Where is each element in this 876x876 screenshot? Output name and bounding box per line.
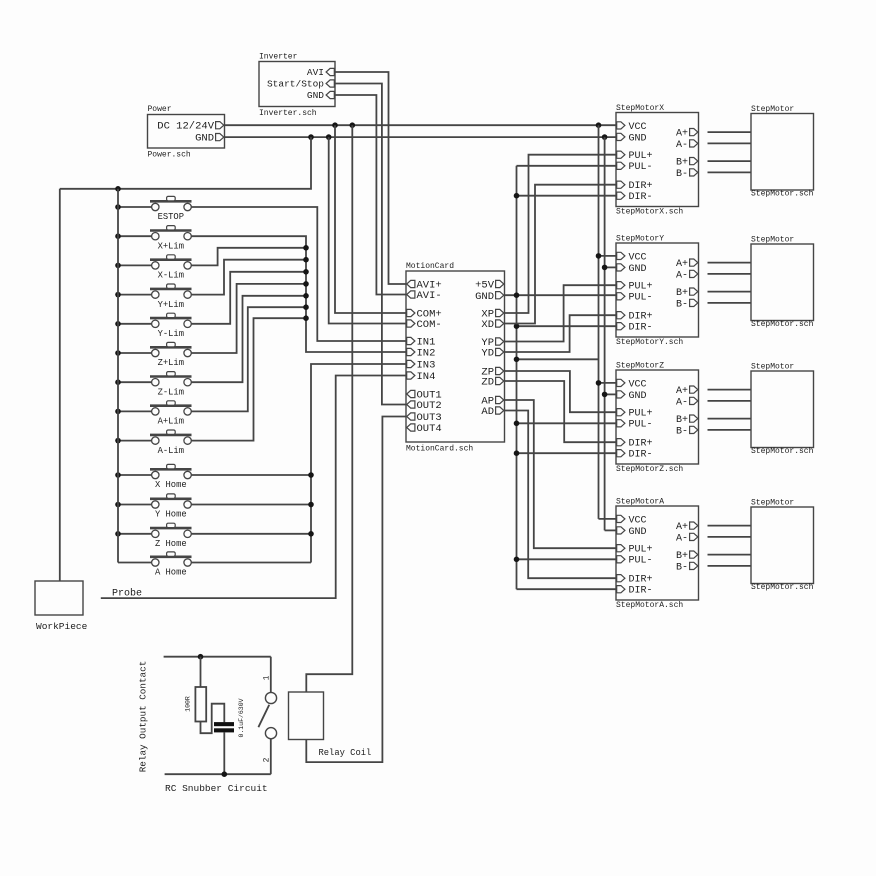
pin ZP of MotionCard: [496, 367, 504, 374]
svg-text:StepMotorY: StepMotorY: [616, 235, 664, 244]
wire bus to A Home left pin: [118, 562, 152, 564]
svg-text:DIR+: DIR+: [629, 181, 653, 192]
pin PUL- of StepMotorA: [617, 556, 625, 563]
wire bus to Y+Lim left pin: [118, 294, 152, 296]
svg-text:Probe: Probe: [112, 587, 142, 599]
svg-text:PUL-: PUL-: [629, 556, 653, 567]
junction bus at Y Home: [115, 502, 121, 508]
svg-text:Inverter.sch: Inverter.sch: [259, 109, 317, 118]
svg-text:A+: A+: [676, 386, 688, 397]
svg-text:StepMotorZ: StepMotorZ: [616, 362, 664, 371]
svg-text:StepMotor.sch: StepMotor.sch: [751, 190, 814, 199]
svg-text:A+: A+: [676, 522, 688, 533]
svg-text:A+: A+: [676, 129, 688, 140]
svg-text:0.1uF/630V: 0.1uF/630V: [238, 698, 245, 737]
svg-text:A-: A-: [676, 270, 688, 281]
svg-text:Relay Output Contact: Relay Output Contact: [138, 661, 149, 773]
svg-text:PUL-: PUL-: [629, 293, 653, 304]
svg-text:100R: 100R: [185, 696, 192, 712]
pin OUT1 of MotionCard: [407, 390, 415, 397]
wire MotionCard GND to StepMotorY PUL- (common rail tap): [505, 294, 617, 296]
svg-text:AVI: AVI: [307, 67, 324, 78]
svg-text:XD: XD: [481, 319, 494, 331]
svg-text:X-Lim: X-Lim: [158, 271, 184, 281]
wire bus to Z-Lim left pin: [118, 381, 152, 383]
contact blade: [258, 705, 269, 727]
pin B- of StepMotorX: [690, 169, 698, 176]
wire A-Lim to limit common: [191, 318, 306, 440]
svg-text:StepMotorA.sch: StepMotorA.sch: [616, 601, 683, 610]
wire switch common bus (vertical): [117, 189, 119, 563]
svg-text:MotionCard.sch: MotionCard.sch: [406, 445, 473, 454]
wire ESTOP to MotionCard IN1: [191, 207, 406, 341]
pin DIR- of StepMotorX: [617, 192, 625, 199]
wire Z-Lim to limit common: [191, 296, 306, 382]
svg-text:IN4: IN4: [417, 371, 436, 383]
junction DC+ / COM+ drop: [332, 122, 338, 128]
contact terminal 2 lead: [270, 739, 272, 774]
junction rail at StepMotorZ DIR-: [514, 450, 520, 456]
svg-text:B-: B-: [676, 169, 688, 180]
junction home common at X Home: [308, 472, 314, 478]
wire VCC rail to StepMotorY VCC: [599, 255, 617, 257]
junction bus at A-Lim: [115, 438, 121, 444]
junction GND / GND rail: [602, 134, 608, 140]
pin A- of StepMotorX: [690, 140, 698, 147]
svg-text:PUL-: PUL-: [629, 420, 653, 431]
pin A+ of StepMotorY: [690, 259, 698, 266]
svg-text:ESTOP: ESTOP: [158, 212, 184, 222]
wire GND rail to StepMotorZ GND: [605, 393, 616, 395]
pin PUL+ of StepMotorA: [617, 545, 625, 552]
switch X-Lim (pushbutton): [150, 258, 192, 261]
RC snubber top rail: [164, 656, 271, 658]
svg-text:DIR+: DIR+: [629, 575, 653, 586]
pin AVI+ of MotionCard: [407, 280, 415, 287]
pin B- of StepMotorY: [690, 299, 698, 306]
junction rail link: [514, 357, 520, 363]
wire rail to StepMotorZ DIR-: [517, 452, 617, 454]
svg-text:Start/Stop: Start/Stop: [267, 79, 324, 90]
wire GND to MotionCard COM-: [329, 137, 406, 323]
wire AD to StepMotorA DIR+: [505, 411, 617, 579]
wire VCC rail to StepMotorZ VCC: [599, 382, 617, 384]
wire GND drop to switch common bus and WorkPiece: [60, 137, 311, 189]
component Relay Coil: [289, 692, 324, 740]
wire GND rail to StepMotorY GND: [605, 266, 616, 268]
pin A+ of StepMotorA: [690, 522, 698, 529]
svg-text:StepMotorX.sch: StepMotorX.sch: [616, 208, 683, 217]
svg-text:AVI-: AVI-: [417, 290, 442, 302]
svg-text:X+Lim: X+Lim: [158, 241, 184, 251]
junction snubber bottom at capacitor: [222, 771, 228, 777]
svg-text:A+: A+: [676, 259, 688, 270]
pin IN4 of MotionCard: [407, 372, 415, 379]
svg-text:COM-: COM-: [417, 319, 442, 331]
resistor 100R lead top: [200, 657, 202, 687]
pin AVI- of MotionCard: [407, 291, 415, 298]
sheet Power (hierarchical block): [148, 115, 225, 149]
svg-text:GND: GND: [307, 90, 324, 101]
pin PUL- of StepMotorZ: [617, 420, 625, 427]
pin PUL+ of StepMotorX: [617, 151, 625, 158]
svg-text:B+: B+: [676, 415, 688, 426]
svg-text:DIR+: DIR+: [629, 439, 653, 450]
wire rail to StepMotorZ PUL-: [517, 422, 617, 424]
wires A+ A- B+ B- from StepMotorX to StepMotor: [708, 131, 752, 133]
wire bus to A+Lim left pin: [118, 410, 152, 412]
svg-text:DIR-: DIR-: [629, 323, 653, 334]
wire A Home right pin to home common: [191, 562, 311, 564]
common rail (PUL-/DIR- return): [516, 166, 518, 589]
junction limit common at A-Lim: [303, 315, 309, 321]
wire DC+ to MotionCard COM+: [335, 125, 406, 313]
pin XP of MotionCard: [496, 309, 504, 316]
svg-text:VCC: VCC: [629, 515, 647, 526]
wire bus to Y Home left pin: [118, 504, 152, 506]
junction GND rail at StepMotorY: [602, 265, 608, 271]
pin GND of StepMotorX: [617, 133, 625, 140]
svg-text:GND: GND: [475, 291, 494, 303]
svg-text:A-: A-: [676, 533, 688, 544]
sheet StepMotor (motor block for axis X): [751, 114, 814, 191]
wire GND rail to StepMotorA GND (end): [605, 529, 616, 531]
sheet StepMotor (motor block for axis Z): [751, 371, 814, 448]
wire YP to StepMotorY PUL+: [505, 285, 617, 341]
junction bus at A+Lim: [115, 409, 121, 415]
wire X+Lim to MotionCard IN2 (limit common): [191, 236, 406, 352]
svg-text:GND: GND: [195, 133, 214, 145]
wire bus to Z Home left pin: [118, 533, 152, 535]
svg-text:Z+Lim: Z+Lim: [158, 358, 184, 368]
wire resistor bottom to capacitor top: [201, 704, 225, 734]
svg-text:MotionCard: MotionCard: [406, 262, 454, 271]
pin COM- of MotionCard: [407, 320, 415, 327]
junction VCC rail at StepMotorY: [596, 253, 602, 259]
sheet StepMotor (motor block for axis A): [751, 507, 814, 584]
pin YD of MotionCard: [496, 348, 504, 355]
sheet MotionCard (hierarchical block): [406, 271, 505, 442]
pin A- of StepMotorA: [690, 533, 698, 540]
svg-text:StepMotor: StepMotor: [751, 499, 794, 508]
wire DC 12/24V from Power to StepMotorX VCC: [225, 124, 617, 126]
pin OUT4 of MotionCard: [407, 424, 415, 431]
junction bus at Y-Lim: [115, 321, 121, 327]
GND rail (to Y/Z/A drivers): [604, 137, 606, 530]
junction limit common at Z-Lim: [303, 293, 309, 299]
pin YP of MotionCard: [496, 338, 504, 345]
svg-text:StepMotor: StepMotor: [751, 236, 794, 245]
pin GND of StepMotorZ: [617, 391, 625, 398]
pin B+ of StepMotorZ: [690, 415, 698, 422]
pin DIR+ of StepMotorA: [617, 575, 625, 582]
pin DIR- of StepMotorY: [617, 323, 625, 330]
wire Probe to MotionCard IN4: [101, 376, 406, 599]
svg-text:RC Snubber Circuit: RC Snubber Circuit: [165, 783, 268, 794]
sheet StepMotor (motor block for axis Y): [751, 244, 814, 321]
wire rail to StepMotorA DIR- (rail end): [517, 588, 617, 590]
svg-text:GND: GND: [629, 264, 647, 275]
svg-text:OUT4: OUT4: [417, 423, 442, 435]
pin A+ of StepMotorZ: [690, 386, 698, 393]
junction DC+ / relay coil feed: [350, 122, 356, 128]
sheet StepMotorZ (driver block): [616, 370, 699, 464]
junction home common at Z Home: [308, 531, 314, 537]
svg-text:PUL+: PUL+: [629, 151, 653, 162]
wire XP to StepMotorX PUL+: [505, 155, 617, 313]
switch Z-Lim (pushbutton): [150, 375, 192, 378]
svg-text:IN2: IN2: [417, 348, 436, 360]
junction rail at StepMotorY DIR-: [514, 323, 520, 329]
svg-text:StepMotorY.sch: StepMotorY.sch: [616, 338, 683, 347]
wire bus to Z+Lim left pin: [118, 352, 152, 354]
svg-text:DIR-: DIR-: [629, 192, 653, 203]
wire bus to X-Lim left pin: [118, 264, 152, 266]
RC snubber bottom rail: [165, 773, 271, 775]
junction limit common at X-Lim: [303, 245, 309, 251]
pin A+ of StepMotorX: [690, 129, 698, 136]
sheet StepMotorY (driver block): [616, 243, 699, 337]
pin B+ of StepMotorA: [690, 551, 698, 558]
wire Z Home right pin to home common: [191, 533, 311, 535]
svg-text:A-Lim: A-Lim: [158, 446, 184, 456]
switch A-Lim (pushbutton): [150, 434, 192, 437]
pin VCC of StepMotorA: [617, 515, 625, 522]
switch Y-Lim (pushbutton): [150, 317, 192, 320]
switch Y Home (pushbutton): [150, 497, 192, 500]
wire ZP to StepMotorZ PUL+: [505, 371, 617, 412]
junction bus at ESTOP: [115, 204, 121, 210]
wire rail link to VCC rail: [517, 358, 599, 360]
pin IN2 of MotionCard: [407, 348, 415, 355]
junction bus top: [115, 186, 121, 192]
svg-text:A-: A-: [676, 140, 688, 151]
junction rail at StepMotorA PUL-: [514, 557, 520, 563]
svg-text:StepMotorX: StepMotorX: [616, 104, 664, 113]
svg-text:Y-Lim: Y-Lim: [158, 329, 184, 339]
svg-text:Z Home: Z Home: [155, 539, 187, 549]
wire XD to StepMotorX DIR+: [505, 185, 617, 324]
svg-text:StepMotor.sch: StepMotor.sch: [751, 320, 814, 329]
pin PUL- of StepMotorY: [617, 293, 625, 300]
svg-text:VCC: VCC: [629, 379, 647, 390]
wire rail to StepMotorX DIR-: [517, 195, 617, 197]
svg-text:B+: B+: [676, 158, 688, 169]
resistor 100R: [195, 687, 206, 722]
pin DIR+ of StepMotorX: [617, 181, 625, 188]
junction GND / switch-common drop: [308, 134, 314, 140]
switch Z Home (pushbutton): [150, 527, 192, 530]
wire Relay Coil bottom to MotionCard OUT3: [306, 417, 406, 763]
wire Inverter AVI to MotionCard AVI+: [335, 72, 406, 284]
svg-text:PUL+: PUL+: [629, 545, 653, 556]
wire AP to StepMotorA PUL+: [505, 400, 617, 548]
pin OUT3 of MotionCard: [407, 413, 415, 420]
wires A+ A- B+ B- from StepMotorA to StepMotor: [708, 525, 752, 527]
svg-text:DIR-: DIR-: [629, 450, 653, 461]
svg-text:A-: A-: [676, 397, 688, 408]
svg-text:1: 1: [263, 675, 272, 680]
svg-text:AD: AD: [481, 406, 494, 418]
wire Inverter GND to MotionCard AVI-: [335, 95, 406, 295]
switch X+Lim (pushbutton): [150, 229, 192, 232]
pin DIR+ of StepMotorY: [617, 312, 625, 319]
switch A+Lim (pushbutton): [150, 404, 192, 407]
wire WorkPiece lead: [59, 189, 61, 581]
pin VCC of StepMotorZ: [617, 379, 625, 386]
capacitor 0.1uF/630V: [214, 722, 234, 726]
svg-text:PUL+: PUL+: [629, 409, 653, 420]
junction home common at Y Home: [308, 502, 314, 508]
pin GND of StepMotorA: [617, 527, 625, 534]
wire DC+ to Relay Coil top: [306, 125, 352, 692]
svg-text:DIR-: DIR-: [629, 586, 653, 597]
svg-text:StepMotor: StepMotor: [751, 105, 794, 114]
svg-text:GND: GND: [629, 133, 647, 144]
junction bus at Z+Lim: [115, 350, 121, 356]
switch A Home (pushbutton): [150, 555, 192, 558]
contact terminal 1 lead: [270, 657, 272, 693]
svg-text:X Home: X Home: [155, 480, 187, 490]
wire home common vertical to MotionCard IN3: [311, 364, 406, 563]
pin DIR- of StepMotorA: [617, 586, 625, 593]
junction bus at Z Home: [115, 531, 121, 537]
wire X-Lim to limit common: [191, 248, 306, 266]
junction limit common at Y-Lim: [303, 269, 309, 275]
junction GND / COM- drop: [326, 134, 332, 140]
svg-text:Inverter: Inverter: [259, 53, 298, 62]
pin B- of StepMotorZ: [690, 426, 698, 433]
svg-text:Z-Lim: Z-Lim: [158, 387, 184, 397]
wire Y-Lim to limit common: [191, 272, 306, 324]
pin DIR+ of StepMotorZ: [617, 439, 625, 446]
pin IN3 of MotionCard: [407, 360, 415, 367]
wire Y+Lim to limit common: [191, 260, 306, 295]
svg-text:YD: YD: [481, 348, 494, 360]
wire VCC rail to StepMotorA VCC (end): [599, 518, 617, 520]
svg-text:DIR+: DIR+: [629, 312, 653, 323]
wire rail to StepMotorX PUL-: [517, 165, 617, 167]
junction GND rail at StepMotorZ: [602, 392, 608, 398]
svg-text:GND: GND: [629, 527, 647, 538]
junction rail at StepMotorY PUL-: [514, 292, 520, 298]
VCC rail (DC+ to Y/Z/A drivers): [598, 125, 600, 519]
pin A- of StepMotorY: [690, 270, 698, 277]
svg-text:StepMotorZ.sch: StepMotorZ.sch: [616, 465, 683, 474]
pin AP of MotionCard: [496, 396, 504, 403]
wire Inverter Start/Stop to MotionCard OUT2: [335, 84, 406, 405]
wire rail to StepMotorA PUL-: [517, 558, 617, 560]
wire YD to StepMotorY DIR+: [505, 315, 617, 352]
pin IN1 of MotionCard: [407, 337, 415, 344]
svg-text:B+: B+: [676, 551, 688, 562]
pin XD of MotionCard: [496, 320, 504, 327]
capacitor bottom lead: [223, 732, 225, 774]
svg-text:GND: GND: [629, 391, 647, 402]
junction limit common at Z+Lim: [303, 281, 309, 287]
contact pole 1: [265, 692, 276, 703]
pin B+ of StepMotorY: [690, 288, 698, 295]
junction bus at X Home: [115, 472, 121, 478]
pin PUL+ of StepMotorZ: [617, 409, 625, 416]
pin PUL+ of StepMotorY: [617, 282, 625, 289]
wires A+ A- B+ B- from StepMotorY to StepMotor: [708, 262, 752, 264]
pin COM+ of MotionCard: [407, 309, 415, 316]
svg-text:PUL-: PUL-: [629, 162, 653, 173]
svg-text:VCC: VCC: [629, 122, 647, 133]
junction bus at Y+Lim: [115, 292, 121, 298]
wire A+Lim to limit common: [191, 307, 306, 411]
pin ZD of MotionCard: [496, 377, 504, 384]
pin DIR- of StepMotorZ: [617, 450, 625, 457]
svg-text:2: 2: [263, 757, 272, 762]
wire ZD to StepMotorZ DIR+: [505, 381, 617, 442]
wire bus to A-Lim left pin: [118, 440, 152, 442]
junction bus at X+Lim: [115, 233, 121, 239]
svg-text:StepMotorA: StepMotorA: [616, 498, 664, 507]
sheet StepMotorX (driver block): [616, 113, 699, 207]
junction rail at StepMotorX DIR-: [514, 193, 520, 199]
contact pole 2: [265, 728, 276, 739]
svg-text:ZD: ZD: [481, 377, 494, 389]
pin VCC of StepMotorY: [617, 252, 625, 259]
wire bus to X Home left pin: [118, 474, 152, 476]
junction DC+ / VCC rail: [596, 122, 602, 128]
svg-text:StepMotor.sch: StepMotor.sch: [751, 447, 814, 456]
pin PUL- of StepMotorX: [617, 162, 625, 169]
svg-text:B-: B-: [676, 562, 688, 573]
svg-text:WorkPiece: WorkPiece: [36, 621, 88, 632]
svg-text:OUT2: OUT2: [417, 400, 442, 412]
svg-text:Y+Lim: Y+Lim: [158, 300, 184, 310]
junction rail at StepMotorZ PUL-: [514, 421, 520, 427]
svg-text:StepMotor: StepMotor: [751, 363, 794, 372]
pin GND of MotionCard: [496, 292, 504, 299]
pin B- of StepMotorA: [690, 562, 698, 569]
svg-text:IN3: IN3: [417, 360, 436, 372]
pin VCC of StepMotorX: [617, 122, 625, 129]
wire Y Home right pin to home common: [191, 504, 311, 506]
pin +5V of MotionCard: [496, 280, 504, 287]
svg-text:DC 12/24V: DC 12/24V: [157, 121, 214, 133]
svg-text:B-: B-: [676, 426, 688, 437]
svg-text:Power.sch: Power.sch: [148, 151, 191, 160]
sheet StepMotorA (driver block): [616, 506, 699, 600]
junction VCC rail at StepMotorZ: [596, 380, 602, 386]
pin A- of StepMotorZ: [690, 397, 698, 404]
svg-text:VCC: VCC: [629, 252, 647, 263]
svg-text:Relay Coil: Relay Coil: [319, 748, 372, 758]
wire bus to ESTOP left pin: [118, 206, 152, 208]
svg-text:Power: Power: [148, 105, 172, 114]
wire rail to StepMotorY DIR-: [517, 325, 617, 327]
pin GND of StepMotorY: [617, 264, 625, 271]
svg-text:PUL+: PUL+: [629, 282, 653, 293]
wire X Home right pin to home common: [191, 474, 311, 476]
junction limit common at A+Lim: [303, 304, 309, 310]
wire bus to X+Lim left pin: [118, 235, 152, 237]
switch Z+Lim (pushbutton): [150, 346, 192, 349]
svg-text:B+: B+: [676, 288, 688, 299]
pin AD of MotionCard: [496, 407, 504, 414]
switch X Home (pushbutton): [150, 468, 192, 471]
sheet Inverter (hierarchical block): [259, 62, 335, 107]
wire Z+Lim to limit common: [191, 284, 306, 353]
pin OUT2 of MotionCard: [407, 401, 415, 408]
junction limit common at Y+Lim: [303, 257, 309, 263]
junction snubber top at resistor: [198, 654, 204, 660]
pin B+ of StepMotorX: [690, 158, 698, 165]
